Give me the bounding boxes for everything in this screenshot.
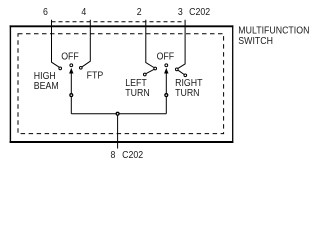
svg-text:3: 3 (178, 6, 183, 18)
svg-text:BEAM: BEAM (34, 80, 59, 92)
svg-text:2: 2 (137, 6, 142, 18)
svg-text:TURN: TURN (125, 87, 150, 99)
svg-text:8: 8 (111, 148, 116, 160)
svg-text:SWITCH: SWITCH (238, 35, 273, 47)
svg-text:TURN: TURN (175, 87, 200, 99)
svg-text:6: 6 (43, 6, 48, 18)
svg-text:FTP: FTP (87, 69, 104, 81)
svg-text:C202: C202 (122, 148, 143, 160)
svg-text:OFF: OFF (61, 50, 79, 62)
svg-text:OFF: OFF (157, 50, 175, 62)
svg-text:4: 4 (81, 6, 86, 18)
svg-text:C202: C202 (189, 6, 210, 18)
